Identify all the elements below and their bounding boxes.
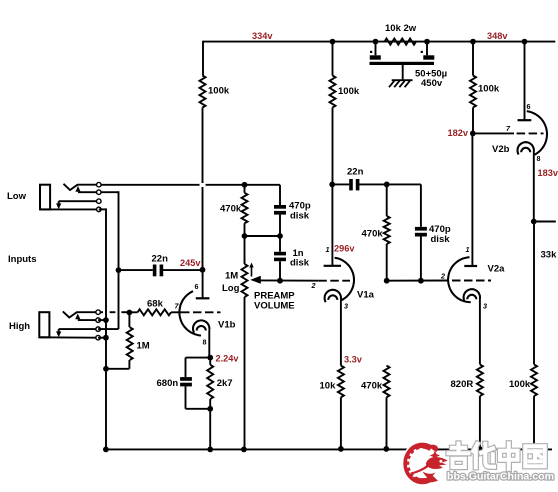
resistor R 10k V1a cathode xyxy=(320,366,344,449)
junction High contact2 to ground bus xyxy=(98,317,109,323)
wire Low tip to tone network xyxy=(101,184,280,186)
svg-text:334v: 334v xyxy=(252,31,273,41)
junction V1b cathode 2.24v xyxy=(207,355,213,361)
tube V1b grid pin7 xyxy=(175,302,221,313)
tube V1a anode pin1 xyxy=(324,245,341,266)
resistor R 10k 2w xyxy=(373,23,430,45)
junction top rail to V2b plate xyxy=(522,39,528,45)
resistor R 2k7 cathode xyxy=(207,358,232,450)
wire V2b cathode down xyxy=(533,152,535,222)
wire 100k to 22n tap xyxy=(332,108,334,185)
wire 100k to 182v node xyxy=(472,108,474,134)
junction output node xyxy=(531,219,537,225)
resistor R 470k attenuator xyxy=(362,184,390,280)
capacitor C 22n interstage xyxy=(332,167,387,191)
capacitor C 680n cathode bypass xyxy=(157,358,211,409)
svg-text:1M: 1M xyxy=(137,341,150,352)
wire grid feed to V2a xyxy=(387,280,449,282)
label Inputs xyxy=(8,254,37,265)
junction High sleeve to ground bus xyxy=(98,335,109,341)
tube V2a cathode pin3 xyxy=(464,289,487,310)
label V1b xyxy=(218,319,236,330)
svg-text:8: 8 xyxy=(203,338,207,347)
node 296v label xyxy=(334,243,355,253)
svg-text:820R: 820R xyxy=(451,379,474,390)
jack J2 High switch contact 3 xyxy=(96,327,101,332)
svg-text:V1a: V1a xyxy=(357,290,375,301)
junction 182v node xyxy=(470,131,476,137)
svg-text:Inputs: Inputs xyxy=(8,254,37,265)
tube V1b envelope xyxy=(179,291,201,335)
tube V2a grid pin2 xyxy=(440,271,491,280)
svg-text:6: 6 xyxy=(527,102,531,111)
svg-text:bbs.GuitarChina.com: bbs.GuitarChina.com xyxy=(447,471,554,483)
junction top rail to V1a plate column xyxy=(330,39,336,45)
resistor R 100k V1b anode xyxy=(200,76,230,108)
wire High tip to grid stopper xyxy=(100,311,129,313)
svg-text:470k: 470k xyxy=(362,229,384,240)
potentiometer VR 1M Log preamp volume xyxy=(222,236,254,449)
junction 1M to ground bus xyxy=(103,366,109,372)
watermark GuitarChina logo xyxy=(401,443,554,484)
wire 100k to 245v node xyxy=(202,108,204,270)
tube V1a grid pin2 xyxy=(311,281,351,290)
wire output to edge xyxy=(534,221,556,223)
label V2a xyxy=(488,264,506,275)
svg-text:1: 1 xyxy=(466,245,470,254)
svg-text:470k: 470k xyxy=(361,381,383,392)
label 33k xyxy=(541,250,558,261)
node 3.3v label xyxy=(344,355,363,365)
label PREAMP VOLUME xyxy=(254,291,295,312)
node 182v label xyxy=(448,128,469,138)
potentiometer wiper arrow xyxy=(250,276,318,284)
ground power supply xyxy=(389,65,413,87)
tube V1b cathode pin8 xyxy=(193,320,209,346)
jack J2 High tip contact xyxy=(96,310,101,315)
svg-text:100k: 100k xyxy=(338,86,360,97)
wire rail to V2b plate xyxy=(524,42,526,121)
svg-text:470k: 470k xyxy=(220,204,242,215)
svg-text:680n: 680n xyxy=(157,378,179,389)
wire V1b cathode xyxy=(208,330,210,358)
jack J2 High sleeve contact xyxy=(96,335,101,340)
wire 182v to V2a plate xyxy=(471,133,473,266)
svg-text:1M: 1M xyxy=(225,270,238,281)
capacitor C 470p disk bright xyxy=(274,185,311,236)
svg-text:1: 1 xyxy=(326,245,330,254)
node 348v label xyxy=(487,31,508,41)
capacitor C 50+50u 450v xyxy=(370,42,448,89)
svg-text:182v: 182v xyxy=(448,128,469,138)
wire ground bus from Low sleeve xyxy=(99,208,106,449)
node 245v label xyxy=(180,258,201,268)
svg-text:348v: 348v xyxy=(487,31,508,41)
junction 22n to 470k xyxy=(384,182,390,188)
jack J2 High switch contact 2 xyxy=(96,318,101,323)
resistor R 100k V2a anode xyxy=(470,42,500,108)
jack J2 High body xyxy=(39,311,96,337)
tube V2b envelope xyxy=(527,111,547,155)
svg-text:3.3v: 3.3v xyxy=(344,355,363,365)
capacitor C 1n disk xyxy=(274,236,310,281)
capacitor C 22n V1b output xyxy=(119,254,203,277)
junction 1M grid leak xyxy=(126,310,132,316)
junction 470p to grid wire xyxy=(418,278,424,284)
label Low input xyxy=(7,191,27,202)
svg-text:V2b: V2b xyxy=(492,144,510,155)
junction 470k top xyxy=(242,182,248,188)
svg-text:Low: Low xyxy=(7,191,27,202)
svg-text:100k: 100k xyxy=(509,379,531,390)
tube V2a anode pin1 xyxy=(464,245,477,266)
svg-text:VOLUME: VOLUME xyxy=(254,300,295,311)
junction V1a anode 22n tap xyxy=(329,182,335,188)
junction 2k7 ground xyxy=(207,447,213,453)
svg-text:3: 3 xyxy=(344,302,348,311)
junction ground bus xyxy=(103,447,109,453)
svg-text:22n: 22n xyxy=(347,167,364,178)
wire plate signal bus xyxy=(98,191,118,329)
resistor R 820R V2a cathode xyxy=(451,364,483,449)
jack J1 Low body xyxy=(40,184,97,210)
tube V2b cathode pin8 xyxy=(518,142,541,163)
jack J1 Low tip contact xyxy=(97,182,102,187)
wire rail corner down to 100k xyxy=(202,41,204,76)
resistor R 100k tail xyxy=(509,222,537,450)
jack J1 Low switch contact 2 xyxy=(97,190,102,195)
label High input xyxy=(9,321,30,332)
junction 470k ground xyxy=(383,446,389,452)
label V2b xyxy=(492,144,510,155)
svg-text:2.24v: 2.24v xyxy=(216,353,240,363)
resistor R 100k V1a anode xyxy=(330,42,360,108)
junction 470k to grid wire xyxy=(384,278,390,284)
label V1a xyxy=(357,290,375,301)
wire 68k to V1b grid xyxy=(171,311,181,313)
junction 1n to wiper wire xyxy=(277,278,283,284)
wire 182v to V2b grid xyxy=(473,132,514,134)
junction 22n input tap xyxy=(116,267,122,273)
svg-text:3: 3 xyxy=(483,301,487,310)
tube V2b anode pin6 xyxy=(518,102,532,120)
svg-text:8: 8 xyxy=(537,154,541,163)
wire V2a cathode to 820R xyxy=(479,299,481,365)
svg-text:10k 2w: 10k 2w xyxy=(385,23,417,34)
svg-text:Log: Log xyxy=(222,283,240,294)
svg-text:disk: disk xyxy=(290,210,310,221)
svg-text:2: 2 xyxy=(311,281,316,290)
junction 2k7 bottom xyxy=(207,406,213,412)
wire 22n tap to V1a plate xyxy=(331,184,333,265)
resistor R 68k grid stopper xyxy=(129,299,171,316)
wire 22n node to 470p corner xyxy=(387,183,421,185)
junction 470k-470p bottom xyxy=(242,233,283,239)
junction top rail to right 100k xyxy=(470,39,476,45)
svg-text:disk: disk xyxy=(290,257,310,268)
svg-text:33k: 33k xyxy=(541,250,558,261)
svg-text:68k: 68k xyxy=(147,299,164,310)
junction 100k ground xyxy=(531,446,537,452)
capacitor C 470p disk V2a xyxy=(415,184,451,280)
tube V1a envelope xyxy=(335,258,354,301)
svg-text:10k: 10k xyxy=(320,381,337,392)
svg-text:2: 2 xyxy=(440,271,445,280)
junction 245v node xyxy=(200,267,206,273)
wire V1a cathode to 10k xyxy=(340,299,342,366)
svg-text:450v: 450v xyxy=(421,78,443,89)
jack J1 Low sleeve contact xyxy=(97,207,102,212)
wire ground rail xyxy=(105,448,552,450)
tube V2a envelope xyxy=(448,257,471,302)
svg-text:2k7: 2k7 xyxy=(217,378,233,389)
jack J1 Low switch contact 3 xyxy=(97,199,102,204)
svg-text:disk: disk xyxy=(431,234,451,245)
tube V1a cathode pin3 xyxy=(325,290,348,311)
svg-text:183v: 183v xyxy=(538,168,558,178)
svg-text:V2a: V2a xyxy=(488,264,506,275)
tube V1b anode pin6 xyxy=(195,282,210,298)
svg-text:6: 6 xyxy=(195,282,199,291)
svg-text:296v: 296v xyxy=(334,243,355,253)
svg-text:High: High xyxy=(9,321,30,332)
junction 820R ground xyxy=(477,446,483,452)
svg-text:245v: 245v xyxy=(180,258,201,268)
svg-text:100k: 100k xyxy=(478,83,500,94)
resistor R 470k grid leak V2a xyxy=(361,366,390,449)
wire 245v to V1b plate xyxy=(202,270,204,298)
svg-text:22n: 22n xyxy=(152,254,169,265)
node 183v label xyxy=(538,168,558,178)
svg-text:V1b: V1b xyxy=(218,319,236,330)
node 334v label xyxy=(252,31,273,41)
tube V2b grid pin7 xyxy=(506,124,544,133)
wire HT supply top rail 334v/348v xyxy=(203,41,555,43)
junction volume pot ground xyxy=(241,447,247,453)
resistor R 470k mixer xyxy=(220,185,248,236)
resistor R 1M input grid leak xyxy=(106,313,150,369)
node 2.24v label xyxy=(216,353,240,363)
junction 10k ground xyxy=(338,446,344,452)
svg-text:100k: 100k xyxy=(208,86,230,97)
